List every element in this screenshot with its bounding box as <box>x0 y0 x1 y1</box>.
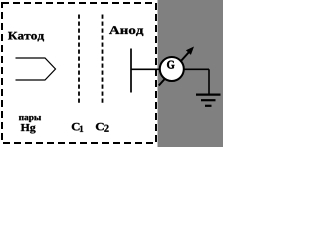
label grid C1: letter C <box>72 123 80 130</box>
grid C1 dashed line <box>78 15 80 104</box>
galvanometer arrow head <box>186 47 194 55</box>
label grid C2: subscript 2 <box>104 125 108 132</box>
wire down to ground <box>208 69 210 94</box>
grid C2 dashed line <box>102 15 104 104</box>
galvanometer arrow shaft <box>159 52 190 86</box>
galvanometer letter G <box>167 61 174 69</box>
label "Hg" <box>21 124 36 133</box>
ground bar 1 <box>196 93 221 95</box>
anode electrode <box>130 49 132 93</box>
ground bar 3 <box>205 105 212 107</box>
white background <box>0 0 223 147</box>
label "Анод" (anode) <box>109 26 143 36</box>
label grid C2: letter C <box>96 123 104 130</box>
vacuum tube dashed border <box>2 3 156 143</box>
label "Катод" (cathode) <box>8 32 44 42</box>
cathode electrode <box>16 58 56 80</box>
wire anode to galvanometer <box>131 68 209 70</box>
label "пары" (vapors) <box>19 116 41 122</box>
ground bar 2 <box>201 99 216 101</box>
gray outside region <box>158 0 224 147</box>
label grid C1: subscript 1 <box>80 126 83 132</box>
galvanometer G circle <box>160 57 184 81</box>
